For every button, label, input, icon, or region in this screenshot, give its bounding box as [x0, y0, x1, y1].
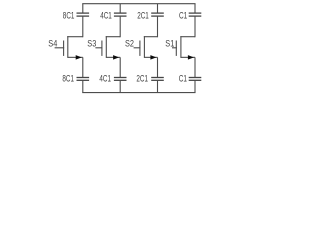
- wire top rail node Vtop: [82, 3, 195, 5]
- transistor S3 (MOS switch): [95, 36, 120, 59]
- capacitor 2C1 (top): [151, 4, 164, 38]
- transistor S2 (MOS switch): [134, 36, 158, 59]
- svg-text:2C1: 2C1: [136, 73, 148, 83]
- wire bottom rail node Vbot: [82, 92, 195, 94]
- svg-text:8C1: 8C1: [63, 10, 75, 20]
- wire node between S3 and bottom 4C1: [119, 57, 121, 77]
- capacitor 4C1 (bottom): [114, 78, 127, 93]
- wire node between S4 and bottom 8C1: [82, 57, 84, 77]
- svg-text:C1: C1: [179, 73, 187, 83]
- transistor S1 (MOS switch): [172, 36, 195, 59]
- svg-text:4C1: 4C1: [99, 73, 111, 83]
- svg-text:S4: S4: [48, 38, 57, 48]
- svg-text:S3: S3: [87, 38, 96, 48]
- svg-text:4C1: 4C1: [100, 10, 112, 20]
- capacitor 8C1 (top): [77, 4, 90, 38]
- capacitor C1 (bottom): [189, 78, 202, 93]
- svg-text:S1: S1: [165, 38, 174, 48]
- capacitor 4C1 (top): [114, 4, 127, 38]
- svg-text:8C1: 8C1: [62, 73, 74, 83]
- capacitor 2C1 (bottom): [151, 78, 164, 93]
- capacitor 8C1 (bottom): [77, 78, 90, 93]
- capacitor C1 (top): [189, 4, 202, 38]
- wire node between S1 and bottom C1: [194, 57, 196, 77]
- svg-text:S2: S2: [125, 38, 134, 48]
- svg-text:C1: C1: [179, 10, 187, 20]
- transistor S4 (MOS switch): [55, 36, 83, 59]
- svg-text:2C1: 2C1: [137, 10, 149, 20]
- wire node between S2 and bottom 2C1: [157, 57, 159, 77]
